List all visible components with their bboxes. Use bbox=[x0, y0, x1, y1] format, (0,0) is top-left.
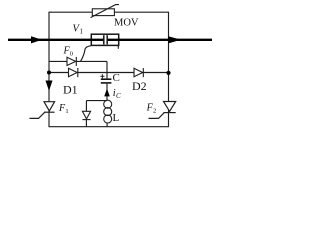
MOV diagonal stroke bbox=[91, 5, 120, 18]
wire F0 row bbox=[49, 60, 107, 62]
svg-text:C: C bbox=[116, 92, 121, 100]
wire capacitor stem upper bbox=[106, 61, 108, 78]
arrow on left branch (current direction) bbox=[46, 81, 53, 92]
thyristor F1 gate bbox=[30, 112, 45, 118]
svg-text:C: C bbox=[113, 72, 120, 84]
wire right edge vertical bbox=[168, 12, 170, 127]
wire jog from F0 row up to V1 box bottom-left bbox=[81, 46, 92, 62]
thyristor F2 gate bbox=[149, 113, 165, 119]
arrow on bus left bbox=[31, 36, 42, 43]
switch V1 contact plates bbox=[103, 35, 105, 44]
freewheel diode bbox=[82, 111, 90, 119]
svg-text:0: 0 bbox=[70, 51, 73, 58]
wire stub below V1 box right corner bbox=[117, 46, 119, 49]
inductor L coil bbox=[104, 100, 112, 123]
wire capacitor stem lower bbox=[106, 84, 108, 101]
wire top edge left segment bbox=[49, 12, 170, 127]
capacitor C plates bbox=[101, 78, 112, 80]
svg-text:MOV: MOV bbox=[114, 18, 139, 29]
svg-text:L: L bbox=[113, 112, 120, 124]
wire bottom edge bbox=[49, 126, 170, 128]
main bus thick line right part bbox=[107, 39, 212, 41]
wire freewheel diode branch vertical bbox=[85, 101, 87, 127]
switch V1 box bbox=[91, 34, 118, 45]
svg-text:2: 2 bbox=[153, 107, 156, 114]
svg-text:1: 1 bbox=[80, 28, 84, 36]
diode F0 bbox=[67, 57, 76, 66]
arrow on bus right bbox=[168, 36, 181, 43]
wire top edge right segment bbox=[114, 11, 168, 13]
capacitor C plus sign bbox=[100, 74, 104, 78]
svg-text:1: 1 bbox=[65, 108, 68, 115]
svg-text:D1: D1 bbox=[63, 83, 78, 97]
diode D2 bbox=[134, 68, 143, 77]
wire D row bbox=[49, 72, 169, 74]
diode D1 bbox=[69, 68, 78, 77]
main bus thick line left part bbox=[8, 39, 104, 41]
svg-text:D2: D2 bbox=[132, 79, 147, 93]
thyristor F2 bbox=[149, 102, 176, 119]
junction dot left bbox=[47, 71, 51, 75]
MOV varistor box bbox=[92, 9, 114, 16]
wire left edge vertical bbox=[48, 12, 50, 127]
thyristor F1 bbox=[30, 102, 55, 119]
current arrow iC bbox=[104, 89, 110, 97]
wire branch horizontal to freewheel diode bbox=[86, 100, 107, 102]
junction dot right bbox=[166, 71, 170, 75]
wire coil bottom lead bbox=[106, 123, 108, 127]
